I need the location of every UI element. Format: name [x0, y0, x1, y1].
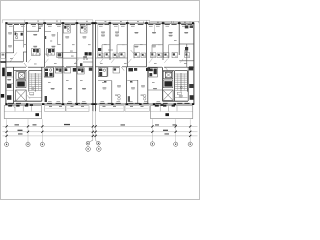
- radiators under bottom windows: [48, 100, 52, 103]
- bedroom divider room 148-162: [148, 89, 163, 91]
- dimension text 5780: [15, 124, 20, 125]
- left edge closet: [1, 53, 5, 58]
- left loggia wall lower: [1, 94, 4, 98]
- stair landing rect right: [177, 92, 181, 95]
- elevator shaft right middle: [163, 80, 173, 88]
- kitchen counters upper band B: [98, 48, 101, 51]
- stair enclosure left: [28, 71, 30, 92]
- dimension text line3 right: [165, 133, 170, 134]
- dimension text 3200b: [173, 124, 177, 125]
- bathroom lower A3: [77, 68, 84, 74]
- kitchen window bay B mid: [128, 96, 130, 102]
- bathroom lower A1: [44, 68, 53, 77]
- top outer wall: [6, 22, 195, 24]
- dimension text 5780b: [155, 124, 159, 125]
- bottom wall window sills: [8, 102, 13, 105]
- bottom balcony railings: [45, 106, 66, 112]
- right upper column fixtures: [185, 25, 189, 28]
- top wall window sills: [8, 23, 13, 26]
- kitchen cluster unit2: [32, 49, 41, 56]
- unit3 interior walls: [45, 31, 52, 33]
- top balcony dividers: [1, 20, 3, 23]
- upper B nested walls: [97, 23, 99, 58]
- kitchen window bay A1: [45, 96, 47, 102]
- bathroom unit4 top: [80, 25, 87, 33]
- dimension text 25200b: [163, 130, 168, 131]
- left column room lines: [7, 76, 14, 78]
- dimension text 3200: [33, 124, 37, 125]
- stair arrow left: [32, 88, 34, 90]
- hall walls unit 63-76: [63, 51, 77, 53]
- kitchen cluster unit4: [85, 52, 88, 55]
- axis bubble pair left of joint: [86, 142, 90, 146]
- kitchen cluster unit3: [47, 49, 55, 56]
- dimension lines: [3, 125, 198, 127]
- landing line below stairs left: [29, 97, 42, 99]
- joint strip mark: [89, 68, 92, 71]
- balcony door thresholds: [49, 106, 52, 107]
- right entrance porch: [150, 106, 192, 119]
- expansion joint wall left: [92, 23, 94, 111]
- axis bubble 2: [26, 142, 30, 146]
- upper partition walls: [13, 25, 15, 53]
- porch step line right: [150, 110, 192, 112]
- bathroom lower B mid2: [113, 68, 120, 73]
- bathroom lower B1: [98, 68, 107, 77]
- axis bubble pair right of joint: [97, 142, 101, 146]
- stair mid divider right: [180, 73, 182, 92]
- landing line below stairs right: [175, 97, 188, 99]
- dimension text 6300: [64, 124, 70, 125]
- dimension text 25200: [18, 130, 23, 131]
- corridor dark blob: [146, 68, 150, 71]
- radiators under top windows: [9, 25, 13, 28]
- porch step line left: [4, 110, 42, 112]
- corridor band fixtures: [98, 53, 103, 58]
- lower partition walls: [13, 67, 15, 104]
- upper interior walls: [6, 52, 14, 54]
- balcony small marks: [37, 21, 39, 22]
- axis bubble 6: [188, 142, 192, 146]
- stair treads left: [29, 73, 41, 75]
- bathroom unit1 fixtures: [15, 33, 17, 35]
- right outer wall: [193, 23, 195, 104]
- axis extension lines: [6, 119, 8, 141]
- balcony door marks lower B: [104, 81, 106, 83]
- elevator shaft right upper: [163, 71, 173, 79]
- circled labels lower B: [118, 95, 121, 98]
- bottom wall piers: [5, 103, 7, 105]
- bathroom unit3 top: [63, 25, 70, 33]
- top balcony rail line A: [2, 19, 93, 21]
- elevator shaft left upper: [16, 72, 26, 80]
- room area labels: [8, 32, 12, 33]
- stair arrow right: [180, 87, 182, 89]
- border frame: [1, 1, 200, 200]
- left outer wall: [5, 23, 7, 104]
- corridor door arcs: [28, 59, 31, 63]
- bathroom lower A1b: [55, 68, 62, 73]
- elevator shaft left lower: [16, 90, 27, 101]
- stair enclosure right: [162, 67, 164, 101]
- axis bubble 3: [40, 142, 44, 146]
- top balcony rail line right: [150, 20, 199, 22]
- left entrance porch: [4, 106, 42, 119]
- stair landing rect left: [29, 92, 33, 95]
- unit2 top room walls: [27, 30, 39, 32]
- axis bubble 4: [150, 142, 154, 146]
- top wall piers: [5, 22, 7, 24]
- top balcony rail line B: [95, 19, 149, 21]
- stair treads right: [175, 73, 187, 75]
- balcony nubs: [143, 21, 145, 23]
- stair exit door arc: [27, 95, 30, 99]
- dark bath unit3: [57, 52, 62, 57]
- bathroom lower A2: [64, 68, 71, 73]
- misc small smudges: [41, 24, 44, 27]
- bathroom lower B2: [149, 68, 158, 77]
- upper B inner verticals: [118, 23, 120, 33]
- elevator shaft left middle: [16, 80, 26, 87]
- dimension text 121: [121, 124, 126, 125]
- corridor walls: [6, 66, 26, 68]
- kitchen lower B mid: [128, 68, 133, 71]
- axis bubble 5: [174, 142, 178, 146]
- stair mid divider left: [34, 73, 36, 92]
- right column fixtures: [189, 66, 193, 70]
- bottom outer wall: [6, 103, 195, 105]
- door arcs: [10, 57, 13, 62]
- dimension tick marks: [6, 125, 8, 127]
- axis bubble 1: [5, 142, 9, 146]
- left column fixtures: [7, 72, 12, 76]
- dimension text line3 left: [18, 133, 23, 134]
- expansion joint wall right: [94, 23, 96, 111]
- entry wall dark end: [1, 61, 7, 63]
- door arc hall unit1: [14, 52, 17, 56]
- elevator shaft right lower: [163, 90, 173, 100]
- left loggia wall upper: [2, 68, 5, 77]
